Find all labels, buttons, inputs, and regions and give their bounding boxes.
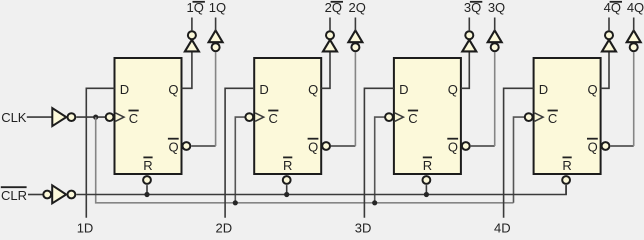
wire CLR distribution line xyxy=(76,185,566,194)
svg-text:D: D xyxy=(399,82,408,97)
wire Q-bar output to buffer (U1) xyxy=(191,145,215,147)
svg-text:R: R xyxy=(283,158,292,173)
wire R input to CLR line (U4) xyxy=(565,185,567,194)
node CLR junction U2 xyxy=(284,192,289,197)
clock input wedge (U4) xyxy=(535,113,544,121)
inverter G1 (CLK buffer) xyxy=(52,108,66,126)
D flip-flop U4 xyxy=(534,58,601,174)
wire stub to 3Q label xyxy=(494,18,496,31)
wire Q-bar riser (U3) xyxy=(494,52,496,146)
C input bubble (U4) xyxy=(525,113,533,121)
svg-text:3D: 3D xyxy=(355,221,372,233)
wire stub to 3Q-bar label xyxy=(468,18,470,32)
node CLK junction xyxy=(93,115,98,120)
svg-text:D: D xyxy=(539,82,548,97)
wire stub to 4Q-bar label xyxy=(608,18,610,32)
inverter G2 (CLR buffer) xyxy=(43,191,51,199)
svg-text:C: C xyxy=(269,111,278,126)
svg-text:C: C xyxy=(548,111,557,126)
svg-text:1Q: 1Q xyxy=(209,0,226,15)
Q-bar output bubble (U4) xyxy=(602,142,610,150)
node CLR junction U1 xyxy=(144,192,149,197)
D flip-flop U2 xyxy=(254,58,321,174)
C input bubble (U1) xyxy=(106,113,114,121)
svg-text:R: R xyxy=(143,158,152,173)
svg-text:2Q: 2Q xyxy=(349,0,366,15)
svg-text:Q: Q xyxy=(168,82,178,97)
inverter 1Q driver xyxy=(212,43,220,51)
wire stub to 2Q-bar label xyxy=(329,18,331,32)
wire Q-bar riser (U1) xyxy=(215,52,217,146)
wire D input from 3D line (U3) xyxy=(364,88,394,218)
node CLK branch junction U2 xyxy=(233,200,238,205)
svg-text:2D: 2D xyxy=(215,221,232,233)
wire CLK riser to U4 xyxy=(514,117,525,203)
wire CLK to inverter xyxy=(27,116,53,118)
svg-text:CLK: CLK xyxy=(1,110,27,125)
inverter 1Q-bar driver xyxy=(185,40,199,52)
wire Q-bar output to buffer (U4) xyxy=(610,145,633,147)
inverter 4Q-bar driver xyxy=(602,40,616,52)
wire CLK riser to U3 xyxy=(375,117,385,203)
wire Q-bar riser (U4) xyxy=(633,52,635,146)
wire Q-bar output to buffer (U3) xyxy=(471,145,495,147)
inverter 3Q driver xyxy=(491,43,499,51)
R input bubble (U2) xyxy=(283,176,291,184)
svg-text:Q: Q xyxy=(587,82,597,97)
wire stub to 1Q label xyxy=(215,18,217,31)
wire Q output to inverter (U3) xyxy=(461,52,469,89)
clock input wedge (U2) xyxy=(255,113,264,121)
wire stub to 4Q label xyxy=(633,18,635,31)
wire stub to 2Q label xyxy=(354,18,356,31)
svg-text:4Q: 4Q xyxy=(627,0,644,15)
inverter 2Q-bar driver xyxy=(323,40,337,52)
wire R input to CLR line (U2) xyxy=(286,185,288,194)
svg-text:D: D xyxy=(120,82,129,97)
svg-text:CLR: CLR xyxy=(1,188,27,203)
R input bubble (U4) xyxy=(562,176,570,184)
clock input wedge (U3) xyxy=(395,113,404,121)
wire D input from 4D line (U4) xyxy=(504,88,534,218)
wire CLK distribution (junction down and along bottom) xyxy=(96,117,514,203)
wire CLR to inverter xyxy=(28,194,43,196)
wire Q output to inverter (U4) xyxy=(601,52,609,89)
svg-text:C: C xyxy=(129,111,138,126)
wire R input to CLR line (U1) xyxy=(146,185,148,194)
svg-text:3Q: 3Q xyxy=(488,0,505,15)
svg-text:Q: Q xyxy=(588,140,598,155)
Q-bar output bubble (U1) xyxy=(183,142,191,150)
C input bubble (U3) xyxy=(385,113,393,121)
svg-text:R: R xyxy=(423,158,432,173)
svg-text:Q: Q xyxy=(168,140,178,155)
wire Q output to inverter (U1) xyxy=(182,52,192,89)
svg-text:Q: Q xyxy=(308,82,318,97)
svg-text:Q: Q xyxy=(448,82,458,97)
wire stub to 1Q-bar label xyxy=(191,18,193,32)
svg-text:D: D xyxy=(259,82,268,97)
svg-text:1D: 1D xyxy=(77,221,94,233)
wire Q-bar riser (U2) xyxy=(354,52,356,146)
wire D input from 2D line (U2) xyxy=(225,88,254,218)
svg-text:R: R xyxy=(562,158,571,173)
Q-bar output bubble (U2) xyxy=(322,142,330,150)
inverter 2Q driver xyxy=(351,43,359,51)
svg-text:C: C xyxy=(408,111,417,126)
svg-text:Q: Q xyxy=(308,140,318,155)
wire Q output to inverter (U2) xyxy=(321,52,330,89)
R input bubble (U3) xyxy=(423,176,431,184)
D flip-flop U3 xyxy=(394,58,461,174)
C input bubble (U2) xyxy=(245,113,253,121)
svg-text:4D: 4D xyxy=(494,221,511,233)
inverter 4Q driver xyxy=(630,43,638,51)
R input bubble (U1) xyxy=(143,176,151,184)
clock input wedge (U1) xyxy=(116,113,125,121)
wire CLK riser to U2 xyxy=(235,117,245,203)
node CLK branch junction U3 xyxy=(372,200,377,205)
Q-bar output bubble (U3) xyxy=(462,142,470,150)
wire CLK inverter output to U1 C input xyxy=(76,116,105,118)
D flip-flop U1 xyxy=(115,58,182,174)
wire D input from 1D line (U1) xyxy=(86,88,114,218)
inverter 3Q-bar driver xyxy=(462,40,476,52)
svg-text:Q: Q xyxy=(448,140,458,155)
wire R input to CLR line (U3) xyxy=(425,185,427,194)
node CLR junction U3 xyxy=(424,192,429,197)
wire Q-bar output to buffer (U2) xyxy=(331,145,355,147)
